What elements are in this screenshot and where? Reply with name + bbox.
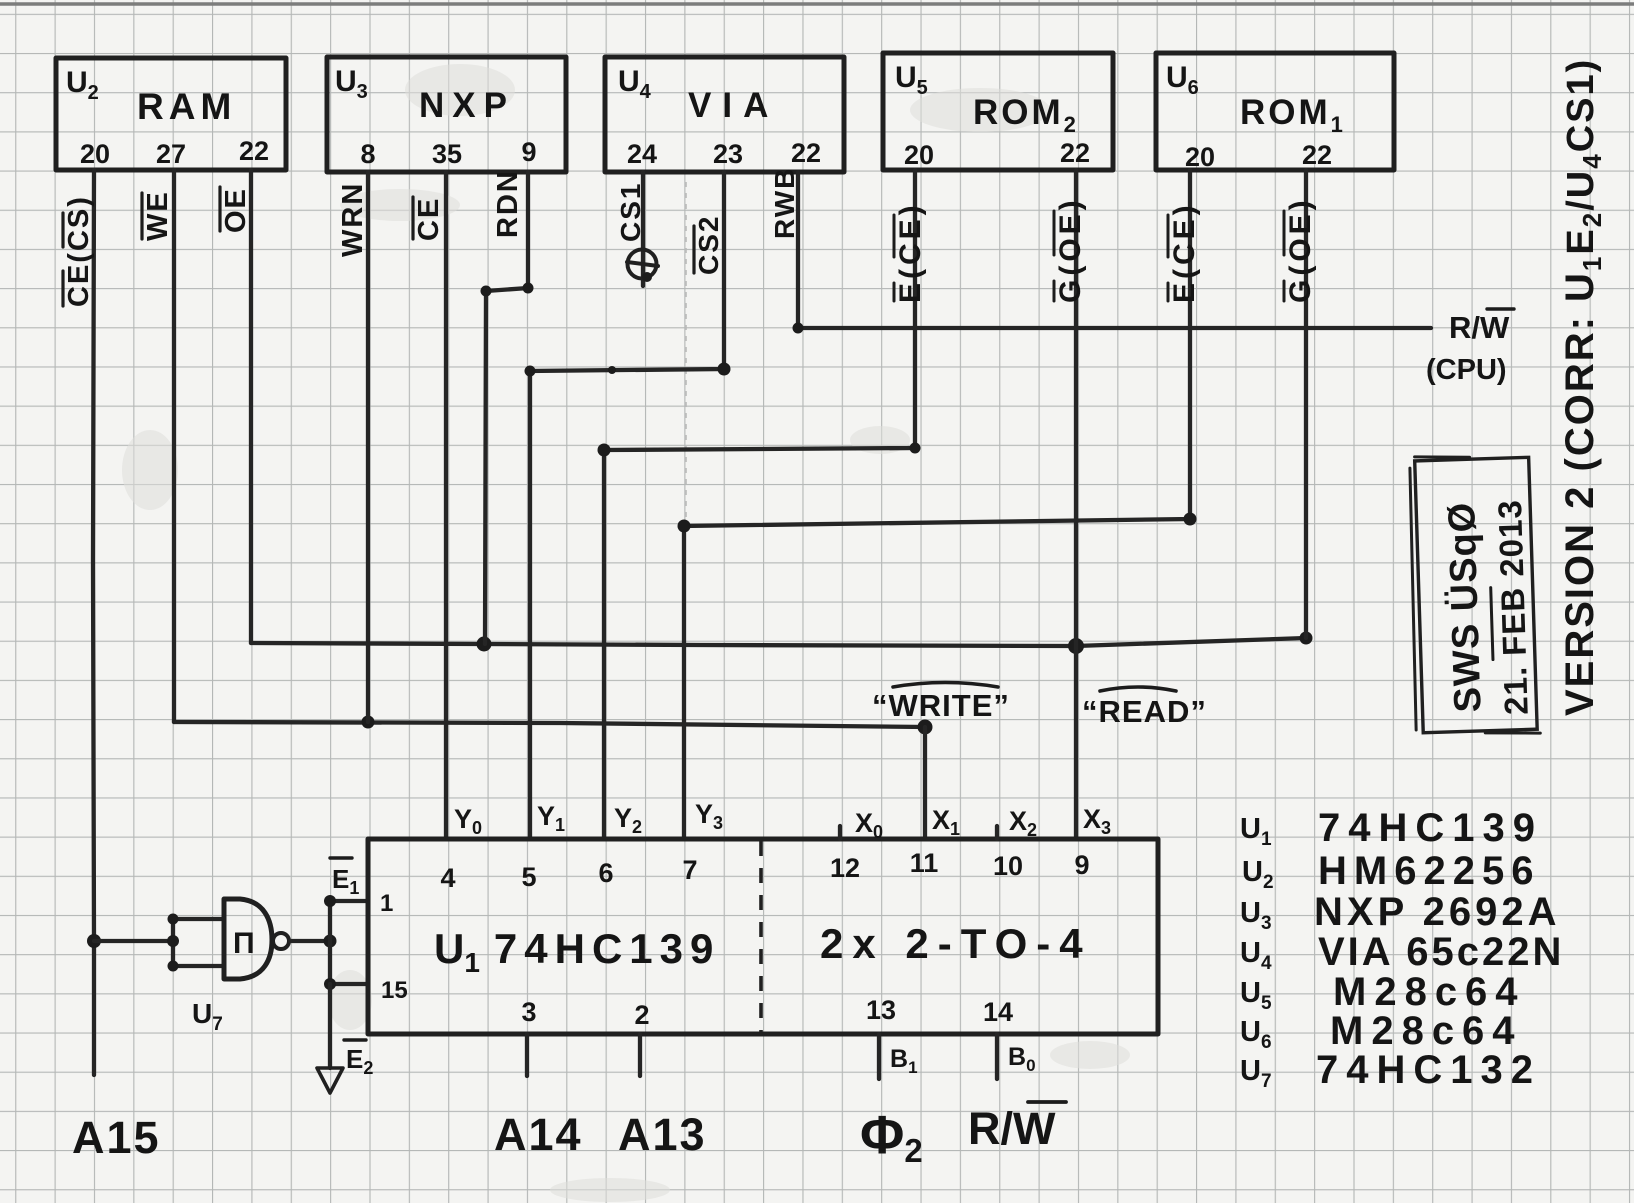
- svg-text:R/W: R/W: [968, 1103, 1056, 1154]
- wire A15 to NAND inputs: [94, 939, 173, 943]
- svg-text:VIA: VIA: [688, 86, 779, 125]
- label CE(CS) on RAM pin20: [63, 195, 95, 307]
- wire U1 pin2 stub: [638, 1034, 642, 1076]
- gate U7 output bubble: [273, 933, 289, 949]
- svg-text:2x 2-TO-4: 2x 2-TO-4: [820, 920, 1092, 967]
- svg-text:1: 1: [380, 890, 393, 917]
- divider dashed: [759, 841, 763, 1032]
- svg-text:OE: OE: [220, 187, 252, 233]
- svg-text:15: 15: [381, 977, 408, 1004]
- svg-text:“READ”: “READ”: [1082, 694, 1207, 729]
- wire WRN NXP pin8 down: [366, 172, 370, 722]
- wire CS1 VIA pin24 stub: [641, 172, 645, 286]
- svg-text:10: 10: [993, 851, 1023, 881]
- wire NAND output to E1/E2: [290, 939, 330, 943]
- wire U1 pin13 stub: [877, 1034, 881, 1079]
- svg-text:ROM2: ROM2: [973, 93, 1079, 137]
- svg-text:9: 9: [1074, 850, 1089, 880]
- wire RDN NXP pin9 down with jog: [485, 172, 528, 644]
- wire E1 stub to U1 pin1: [330, 899, 368, 903]
- svg-text:CE: CE: [413, 197, 445, 241]
- svg-text:CE(CS): CE(CS): [63, 195, 95, 307]
- svg-text:35: 35: [432, 139, 462, 169]
- label WE on RAM pin27: [142, 190, 174, 241]
- svg-text:HM62256: HM62256: [1318, 849, 1540, 893]
- svg-text:M28c64: M28c64: [1333, 970, 1526, 1014]
- scan smudges (decorative): [122, 64, 1130, 1202]
- wire E2 stub to U1 pin15: [330, 982, 368, 986]
- svg-text:WRN: WRN: [337, 182, 369, 257]
- svg-text:ROM1: ROM1: [1240, 93, 1346, 137]
- wire ROM1 E(CE) pin20 jog down to U1 pin7 (Y3): [684, 170, 1190, 839]
- IC U6 ROM1 box: [1156, 53, 1394, 172]
- wire U1 pin3 stub: [525, 1034, 529, 1076]
- wire WE RAM pin27 down: [172, 170, 176, 722]
- svg-text:22: 22: [791, 138, 821, 168]
- label CS2 on VIA pin23: [693, 215, 724, 275]
- node READ right end at ROM1 G: [1300, 632, 1313, 645]
- label G(OE) on ROM1 pin22: [1284, 196, 1317, 303]
- wire CS2 VIA pin23 down with jog to U1 pin5 (Y1): [530, 172, 724, 839]
- svg-text:11: 11: [910, 848, 939, 878]
- svg-text:CS1: CS1: [615, 182, 646, 242]
- svg-text:13: 13: [866, 995, 896, 1025]
- wire CE NXP pin35 down to U1 pin4 (Y0): [444, 172, 448, 839]
- svg-text:G(OE): G(OE): [1054, 196, 1087, 303]
- svg-text:RDN: RDN: [492, 169, 524, 238]
- node WRN junction on WRITE: [362, 716, 375, 729]
- node RWB corner: [793, 323, 804, 334]
- wire ROM2 E(CE) pin20 jog down to U1 pin6 (Y2): [604, 170, 915, 839]
- wire OE RAM pin22 down: [249, 170, 253, 643]
- label READ: [1082, 687, 1207, 729]
- node ink blob on CS2 jog: [608, 366, 616, 374]
- svg-text:74HC132: 74HC132: [1316, 1048, 1541, 1092]
- svg-text:R/W: R/W: [1449, 310, 1510, 345]
- svg-text:A13: A13: [618, 1109, 707, 1160]
- svg-text:NXP: NXP: [419, 86, 515, 125]
- svg-text:2: 2: [634, 1000, 649, 1030]
- svg-text:20: 20: [904, 140, 934, 170]
- ground (open triangle): [317, 1068, 343, 1093]
- node ROM1 E corner: [1184, 513, 1197, 526]
- svg-text:12: 12: [830, 853, 860, 883]
- gate U7 body: [224, 899, 272, 979]
- svg-text:7: 7: [682, 855, 697, 885]
- label R/W bottom: [968, 1102, 1066, 1154]
- svg-text:NXP 2692A: NXP 2692A: [1314, 890, 1561, 934]
- connector symbol on CS1 (circle with cross): [628, 250, 657, 279]
- label WRN on NXP pin8: [337, 182, 369, 257]
- wire ROM1 G(OE) pin22 down to READ: [1304, 170, 1308, 638]
- svg-text:3: 3: [521, 997, 536, 1027]
- scanner top edge: [0, 2, 1634, 6]
- label RWB on VIA pin22: [769, 167, 800, 239]
- node RDN jog corner: [523, 283, 534, 294]
- svg-text:27: 27: [156, 139, 186, 169]
- label CE on NXP pin35: [413, 197, 445, 241]
- IC U2 RAM box: [56, 58, 286, 170]
- svg-text:E(CE): E(CE): [1168, 201, 1201, 303]
- IC U4 VIA box: [605, 57, 844, 172]
- svg-text:74HC139: 74HC139: [1318, 806, 1543, 850]
- label E(CE) on ROM2 pin20: [894, 201, 927, 303]
- node RDN junction on READ: [477, 637, 492, 652]
- svg-text:E(CE): E(CE): [894, 201, 927, 303]
- svg-text:(CPU): (CPU): [1426, 354, 1507, 386]
- label G(OE) on ROM2 pin22: [1054, 196, 1087, 303]
- svg-text:RAM: RAM: [137, 86, 236, 127]
- node WRITE corner to X1: [918, 720, 933, 735]
- node CS2 corner: [718, 363, 731, 376]
- svg-text:22: 22: [1060, 138, 1090, 168]
- pin 12 tick: [838, 826, 842, 839]
- svg-text:22: 22: [1302, 140, 1332, 170]
- svg-text:4: 4: [440, 863, 455, 893]
- svg-text:M28c64: M28c64: [1330, 1009, 1523, 1053]
- svg-text:14: 14: [983, 997, 1013, 1027]
- label R/W (CPU) top right: [1426, 309, 1514, 386]
- label E1 bar: [330, 858, 359, 898]
- svg-text:20: 20: [80, 139, 110, 169]
- IC U5 ROM2 box: [883, 53, 1113, 170]
- svg-text:5: 5: [521, 862, 536, 892]
- node ROM2 E corner: [910, 443, 921, 454]
- node A15-NAND junction: [87, 934, 101, 948]
- label RDN on NXP pin9: [492, 169, 524, 238]
- label E2 bar: [344, 1040, 373, 1078]
- label CS1 on VIA pin24: [615, 182, 646, 242]
- IC U3 NXP box: [327, 57, 566, 172]
- wire down to ground triangle: [328, 984, 332, 1068]
- svg-text:23: 23: [713, 139, 743, 169]
- svg-text:21. FEB 2013: 21. FEB 2013: [1491, 499, 1535, 716]
- svg-text:G(OE): G(OE): [1284, 196, 1317, 303]
- svg-text:CS2: CS2: [693, 215, 724, 275]
- wire RWB VIA pin22 down then right to R/W CPU: [798, 172, 1431, 328]
- svg-text:Π: Π: [233, 927, 255, 960]
- wire A15 net: RAM pin20 down to A15 / NAND inputs: [93, 170, 94, 1075]
- pin 10 tick: [995, 826, 999, 839]
- wire WRITE horizontal: [174, 722, 925, 727]
- node ROM2 G / X3 junction on READ: [1068, 638, 1084, 654]
- wire READ horizontal: [251, 638, 1306, 646]
- svg-text:“WRITE”: “WRITE”: [872, 688, 1010, 723]
- wire WRITE down to U1 pin11: [923, 727, 927, 839]
- svg-text:20: 20: [1185, 142, 1215, 172]
- svg-text:RWB: RWB: [769, 167, 800, 239]
- svg-text:8: 8: [360, 139, 375, 169]
- svg-text:VIA 65c22N: VIA 65c22N: [1318, 930, 1564, 974]
- svg-text:A14: A14: [494, 1109, 583, 1160]
- wire ROM2 G(OE) pin22 down to U1 pin9 (X3): [1074, 170, 1078, 839]
- label OE on RAM pin22: [220, 187, 252, 233]
- label E(CE) on ROM1 pin20: [1168, 201, 1201, 303]
- IC U1 box: [368, 839, 1158, 1034]
- svg-text:WE: WE: [142, 190, 174, 241]
- svg-text:6: 6: [598, 858, 613, 888]
- svg-text:SWS ÜSqØ: SWS ÜSqØ: [1440, 501, 1490, 713]
- svg-text:9: 9: [521, 137, 536, 167]
- svg-text:24: 24: [627, 139, 657, 169]
- svg-text:22: 22: [239, 136, 269, 166]
- svg-text:A15: A15: [72, 1112, 161, 1163]
- wire U1 pin14 stub: [995, 1034, 999, 1079]
- faint pencil guide line: [685, 182, 687, 523]
- label WRITE: [872, 683, 1010, 724]
